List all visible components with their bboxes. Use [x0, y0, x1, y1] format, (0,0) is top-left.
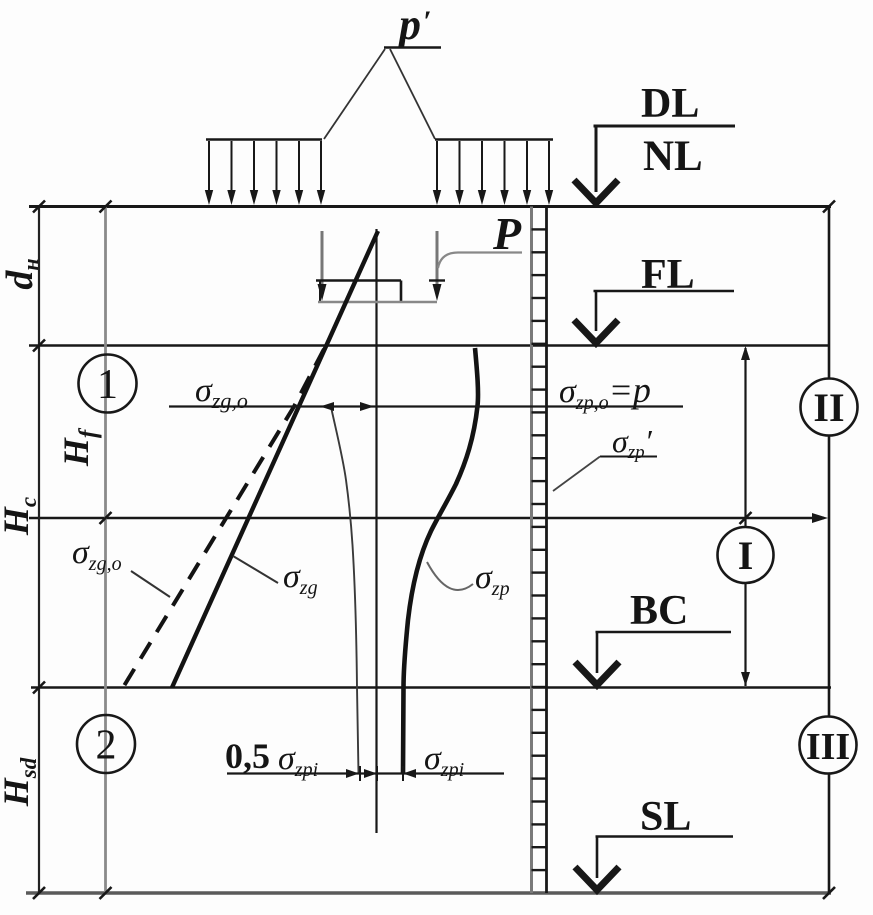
- rotated dimension label Hf: [56, 427, 102, 467]
- solid diagonal sigma-zg line: [172, 231, 378, 688]
- DL level mark: [574, 81, 735, 203]
- NL label: [643, 133, 703, 180]
- foundation level line FL: [29, 344, 829, 346]
- sigma-zg label: [233, 556, 318, 599]
- sigma-zp,o = p label: [559, 370, 651, 414]
- svg-text:DL: DL: [641, 81, 699, 127]
- svg-text:III: III: [806, 726, 850, 768]
- svg-text:SL: SL: [640, 794, 691, 840]
- P label and leader: [438, 208, 522, 268]
- circle mark I: [718, 527, 774, 583]
- thin sigma-zg stress curve: [331, 407, 359, 774]
- BC level mark: [575, 588, 731, 685]
- right border line: [828, 207, 831, 894]
- SL level mark: [575, 794, 733, 890]
- ground line NL/DL level: [29, 205, 831, 208]
- bottom line SL level: [26, 891, 831, 895]
- left outer dimension line: [38, 207, 40, 894]
- dimension line I (between FL and BC): [741, 346, 750, 686]
- circle mark II: [801, 379, 858, 436]
- sigma-zp label: [427, 559, 510, 600]
- svg-text:I: I: [738, 533, 754, 578]
- circle mark III: [800, 717, 857, 774]
- sigma-zg,o upper label: [195, 372, 248, 413]
- svg-text:P: P: [492, 208, 522, 259]
- axis line of foundation: [375, 229, 377, 833]
- borehole ladder column: [532, 207, 547, 894]
- rotated dimension label dn: [0, 258, 43, 289]
- thick sigma-zp stress curve: [403, 348, 478, 774]
- foundation block: [316, 281, 445, 303]
- svg-text:BC: BC: [630, 588, 688, 634]
- sigma-zg,o lower label: [72, 534, 170, 597]
- svg-text:NL: NL: [643, 133, 703, 180]
- left inner dimension line (gray): [104, 207, 107, 894]
- distributed load right block: [433, 140, 553, 206]
- svg-text:1: 1: [97, 362, 118, 408]
- layer boundary line (middle): [29, 513, 828, 523]
- circle mark 1: [79, 355, 137, 413]
- FL level mark: [574, 252, 734, 343]
- sigma-zp' label: [553, 423, 657, 491]
- foundation load arrow left: [318, 231, 327, 301]
- dashed diagonal sigma-zg,o line: [123, 349, 324, 688]
- dimension slash ticks: [33, 201, 835, 900]
- lower compressible boundary line BC: [31, 686, 831, 689]
- p' label and tent leader: [324, 0, 441, 139]
- rotated dimension label Hc: [0, 497, 41, 536]
- sigma-zg,o dimension line across: [169, 402, 683, 411]
- rotated dimension label Hsd: [0, 757, 41, 807]
- bottom dimension 0,5 sigma-zpi: [225, 736, 504, 781]
- foundation load arrow right: [433, 231, 442, 301]
- circle mark 2: [77, 715, 135, 773]
- svg-text:0,5: 0,5: [225, 736, 270, 776]
- distributed load left block: [205, 140, 325, 206]
- svg-text:2: 2: [96, 723, 117, 769]
- svg-text:II: II: [813, 385, 844, 430]
